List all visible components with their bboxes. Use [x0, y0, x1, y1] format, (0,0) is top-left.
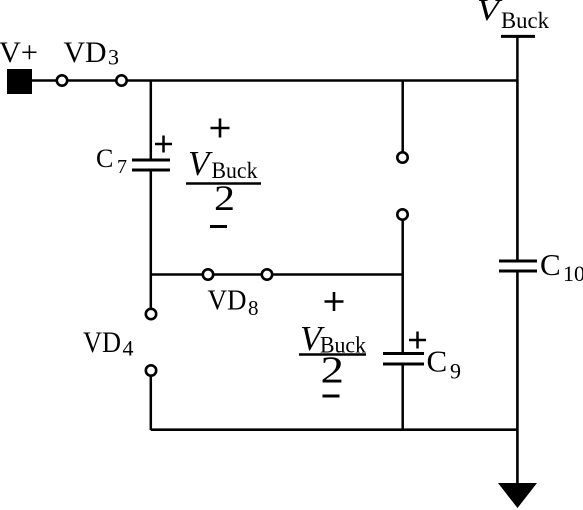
svg-text:V: V — [477, 0, 503, 27]
capacitor C9 — [383, 354, 424, 365]
diode VD3 — [57, 75, 127, 85]
wire right branch lower — [516, 272, 519, 484]
label C10 — [540, 247, 583, 286]
capacitor C10 — [499, 261, 537, 271]
wire middle branch middle — [401, 220, 404, 353]
polarity minus lower — [323, 395, 340, 398]
capacitor C7 — [132, 160, 170, 170]
wire middle branch lower — [401, 365, 404, 430]
label VBuck/2 lower with polarity — [299, 292, 366, 396]
svg-text:Buck: Buck — [501, 8, 549, 33]
label C7 — [96, 144, 127, 178]
diode VD4 — [146, 309, 156, 376]
fraction bar lower — [299, 353, 366, 356]
svg-text:V+: V+ — [0, 36, 38, 69]
svg-text:3: 3 — [108, 45, 119, 70]
svg-text:2: 2 — [321, 350, 345, 392]
label VD4 — [83, 326, 134, 361]
wire left branch lower — [150, 376, 153, 430]
svg-text:VD: VD — [64, 36, 107, 69]
label VBuck (top right) — [477, 0, 549, 33]
label C9 — [427, 344, 462, 384]
polarity minus upper — [210, 225, 227, 228]
svg-text:7: 7 — [117, 156, 127, 178]
wire VD8 rail — [151, 273, 403, 276]
wire top rail — [32, 79, 517, 82]
ground — [498, 483, 537, 508]
fraction bar upper — [186, 182, 261, 185]
wire middle branch upper — [401, 81, 404, 153]
svg-text:C: C — [96, 144, 113, 173]
polarity plus upper — [211, 119, 230, 138]
svg-text:2: 2 — [214, 178, 235, 218]
label VD3 — [64, 36, 120, 70]
wire VBuck stem — [516, 36, 519, 80]
polarity plus C9 — [409, 332, 426, 349]
svg-text:4: 4 — [123, 336, 134, 361]
polarity plus C7 — [155, 136, 172, 153]
svg-text:VD: VD — [83, 326, 121, 359]
diode VD8 — [203, 269, 272, 279]
label VD8 — [208, 285, 259, 321]
node VBuck terminal bar — [501, 35, 535, 38]
polarity plus lower — [325, 292, 344, 311]
terminal V+ — [7, 69, 32, 94]
svg-text:V: V — [188, 144, 213, 183]
wire bottom rail — [151, 428, 518, 431]
switch contacts middle branch — [397, 152, 407, 219]
svg-text:C: C — [540, 247, 561, 282]
svg-text:8: 8 — [248, 296, 259, 320]
svg-text:10: 10 — [563, 261, 583, 286]
wire left branch middle — [150, 171, 153, 309]
svg-text:VD: VD — [208, 285, 247, 317]
label VBuck/2 upper with polarity — [186, 119, 261, 227]
wire left branch upper — [150, 81, 153, 160]
svg-text:9: 9 — [450, 359, 461, 384]
wire right branch upper — [516, 81, 519, 261]
svg-text:C: C — [427, 344, 448, 379]
